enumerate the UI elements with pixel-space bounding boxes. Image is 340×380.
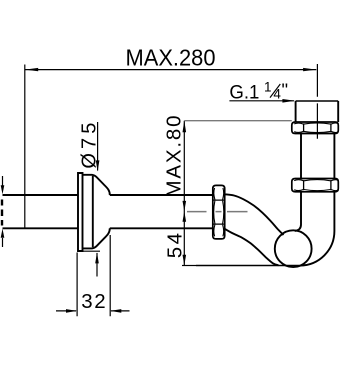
svg-text:MAX.280: MAX.280 [126, 45, 216, 71]
svg-text:": " [282, 79, 289, 100]
svg-text:MAX.80: MAX.80 [163, 116, 186, 198]
svg-text:G.1: G.1 [229, 82, 259, 103]
svg-text:1: 1 [264, 80, 272, 95]
svg-text:Ø75: Ø75 [78, 123, 100, 169]
svg-text:32: 32 [81, 290, 106, 313]
